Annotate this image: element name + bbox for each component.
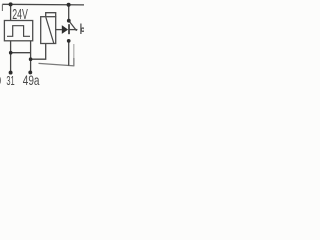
coil top bump bbox=[46, 13, 56, 17]
contact pivot node bbox=[67, 19, 71, 23]
diode V1 cathode bar bbox=[68, 24, 70, 34]
relay coil K1 box bbox=[41, 17, 56, 44]
junction node on rail at 31 branch bbox=[9, 2, 13, 6]
svg-text:9: 9 bbox=[0, 73, 1, 86]
wire: top supply rail bbox=[2, 3, 84, 6]
coil diagonal stroke bbox=[46, 17, 54, 43]
wire: supply drop to pulse generator bbox=[10, 4, 12, 20]
background bbox=[0, 0, 84, 86]
diode V1 triangle bbox=[62, 25, 68, 34]
wire: terminal 49a drop bbox=[30, 41, 32, 72]
svg-text:24V: 24V bbox=[12, 7, 28, 23]
wire: enclosure bottom border bbox=[39, 63, 75, 66]
wire: terminal 31 drop bbox=[10, 41, 12, 72]
terminal node 49a bbox=[28, 70, 32, 74]
square-wave symbol inside G1 bbox=[7, 26, 30, 37]
cut-off symbol at right edge: bowl bbox=[81, 28, 84, 31]
wire: left border stub bbox=[1, 4, 3, 11]
junction node on rail at contact branch bbox=[67, 3, 71, 7]
junction node 49a/coil wire bbox=[29, 57, 33, 61]
wire: lower fixed contact to enclosure bottom bbox=[68, 41, 70, 66]
svg-text:31: 31 bbox=[6, 73, 14, 86]
wire: cross link 31 to 49a line bbox=[11, 52, 31, 54]
pulse generator G1 box bbox=[4, 21, 32, 41]
cut-off symbol at right edge: stem bbox=[80, 24, 82, 35]
lower fixed contact node bbox=[67, 39, 71, 43]
wire: supply drop to contact pivot bbox=[68, 5, 70, 20]
wire: coil to diode anode bbox=[56, 29, 62, 31]
wire: enclosure right border bbox=[73, 44, 75, 58]
junction node 31/cross-link bbox=[9, 51, 13, 55]
wire: 49a to relay coil bbox=[31, 44, 46, 60]
switch lever S1 bbox=[69, 21, 76, 31]
terminal node 31 bbox=[9, 71, 13, 75]
wire: diode cathode to output bbox=[70, 29, 78, 31]
svg-text:49a: 49a bbox=[23, 73, 40, 86]
